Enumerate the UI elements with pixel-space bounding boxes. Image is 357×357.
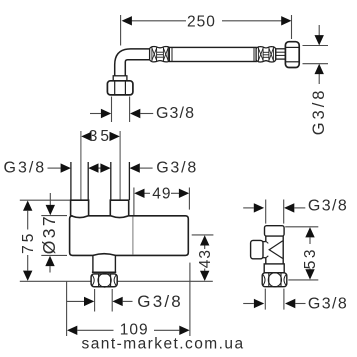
right pipe base <box>110 200 128 216</box>
svg-text:G3/8: G3/8 <box>310 88 328 136</box>
svg-text:75: 75 <box>20 231 37 254</box>
left pipe base <box>71 200 89 216</box>
svg-text:35: 35 <box>89 128 112 145</box>
right inlet pipe <box>111 162 130 200</box>
svg-text:G3/8: G3/8 <box>156 105 195 122</box>
angle valve body <box>251 226 287 287</box>
G3/8 callout elbow nut <box>90 97 153 123</box>
angle valve: bottom G3/8 callout <box>243 289 305 310</box>
long bottom reference line (75/43) <box>20 280 213 282</box>
dimension 75 <box>20 200 70 270</box>
valve body <box>70 216 189 256</box>
hose elbow nut <box>107 81 132 95</box>
dimension 109 <box>67 263 190 336</box>
outlet stub <box>92 255 116 272</box>
hose elbow fitting <box>113 49 149 81</box>
hose nipple <box>276 49 286 59</box>
hose right nut <box>285 42 299 68</box>
svg-text:G3/8: G3/8 <box>4 160 47 177</box>
G3/8 callout outlet <box>67 289 133 312</box>
svg-text:G3/8: G3/8 <box>156 160 198 177</box>
left inlet pipe <box>71 162 88 200</box>
dimension 35 <box>81 131 120 200</box>
hose left ferrule <box>150 46 171 61</box>
body division line <box>132 217 134 255</box>
svg-text:G3/8: G3/8 <box>308 295 348 312</box>
svg-text:Ø37: Ø37 <box>39 214 59 254</box>
angle valve: top G3/8 callout <box>243 200 305 224</box>
svg-text:250: 250 <box>187 13 216 30</box>
svg-text:G3/8: G3/8 <box>308 197 348 214</box>
svg-text:43: 43 <box>197 249 214 268</box>
outlet nut <box>91 273 117 287</box>
hose right ferrule <box>256 47 276 62</box>
svg-text:53: 53 <box>302 247 319 269</box>
svg-text:G3/8: G3/8 <box>137 292 183 311</box>
dimension 53 <box>285 227 318 280</box>
dimension 250 <box>121 15 292 46</box>
dimension 49 <box>134 188 190 229</box>
hose tube <box>169 47 256 61</box>
G3/8 callout right nut <box>303 25 329 84</box>
svg-text:sant-market.com.ua: sant-market.com.ua <box>82 336 245 353</box>
dimension D37 <box>41 193 67 273</box>
dimension 43 <box>192 235 214 272</box>
svg-text:49: 49 <box>152 186 171 203</box>
